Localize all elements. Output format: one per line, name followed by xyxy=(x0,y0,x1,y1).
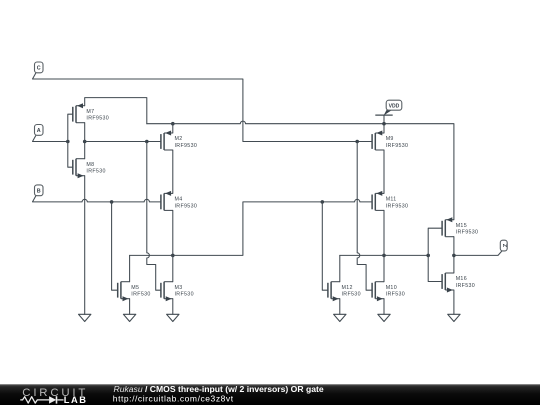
svg-text:M3: M3 xyxy=(175,285,183,291)
transistor M12 IRF530 (NMOS) xyxy=(328,282,361,302)
ground at M16 source xyxy=(448,314,460,321)
svg-text:M16: M16 xyxy=(456,276,467,282)
wire M8 source down to ground (hops B wire) xyxy=(84,176,86,315)
wire M12 source down to ground xyxy=(339,299,341,315)
junction M11 source / M10 drain on right NOR rail xyxy=(382,254,386,258)
node C input label xyxy=(33,62,44,79)
svg-text:M12: M12 xyxy=(342,285,353,291)
transistor M16 IRF530 (NMOS) xyxy=(442,273,475,293)
junction net Abar branch down xyxy=(145,140,149,144)
wire net B: junction down to M5 gate xyxy=(112,202,118,290)
transistor M2 IRF9530 (PMOS) xyxy=(161,131,197,151)
svg-text:IRF530: IRF530 xyxy=(86,169,105,175)
transistor M5 IRF530 (NMOS) xyxy=(118,282,151,302)
footer black bar xyxy=(0,384,540,405)
wire M2 drain up to VDD rail xyxy=(172,124,174,133)
wire M7 source down to inverter output node xyxy=(84,123,86,142)
wire VDD rail (hops C vertical) and down to M15 drain xyxy=(147,121,454,220)
svg-text:M2: M2 xyxy=(175,136,183,142)
ground at M12 source xyxy=(334,314,346,321)
svg-text:A: A xyxy=(37,128,41,134)
svg-text:LAB: LAB xyxy=(64,395,88,405)
junction net B branch to M5 gate xyxy=(110,200,114,204)
svg-text:IRF530: IRF530 xyxy=(456,283,475,289)
svg-text:IRF530: IRF530 xyxy=(175,292,194,298)
wire left NOR output rail up and over to M11 gate (hops at C-branch vertical) xyxy=(130,199,373,255)
node A input label xyxy=(33,125,44,142)
wire net C branch: junction down to M10 gate (hops right rail) xyxy=(357,142,372,291)
svg-text:M10: M10 xyxy=(386,285,397,291)
CircuitLab logo diode xyxy=(49,396,56,403)
wire M8 drain up to inverter output node xyxy=(84,142,86,159)
ground at M10 source xyxy=(378,314,390,321)
wire net A: label to gate junction xyxy=(33,141,68,143)
wire M7 drain up and over to VDD rail xyxy=(85,98,147,124)
svg-text:M4: M4 xyxy=(175,197,183,203)
junction M15/M16 gate node xyxy=(426,254,430,258)
CircuitLab logo resistor zigzag xyxy=(20,397,49,403)
wire M4 source down to left NOR rail xyxy=(172,210,174,255)
wire gate junction up to M15 gate xyxy=(428,228,442,255)
junction inverter-1 output (Abar) xyxy=(83,140,87,144)
wire right NOR output rail to M15/M16 gate junction xyxy=(340,254,428,256)
svg-text:M15: M15 xyxy=(456,223,467,229)
wire M2 source to M4 drain xyxy=(172,150,174,193)
transistor M15 IRF9530 (PMOS) xyxy=(442,217,478,237)
wire M16 drain up to output node xyxy=(453,255,455,273)
svg-text:IRF9530: IRF9530 xyxy=(175,143,198,149)
power VDD symbol and label xyxy=(375,100,402,124)
ground at M8 source xyxy=(79,314,91,321)
wire net C: label to M9 gate xyxy=(33,79,373,142)
svg-text:IRF530: IRF530 xyxy=(386,292,405,298)
svg-text:IRF9530: IRF9530 xyxy=(386,203,409,209)
svg-text:Rukasu / CMOS three-input (w/: Rukasu / CMOS three-input (w/ 2 inversor… xyxy=(114,384,324,394)
transistor M7 IRF9530 (PMOS) xyxy=(73,103,109,123)
junction M2 drain on VDD rail xyxy=(171,122,175,126)
wire branch down to M12 gate xyxy=(322,202,328,290)
wire M16 source down to ground xyxy=(453,290,455,314)
transistor M4 IRF9530 (PMOS) xyxy=(161,191,197,211)
svg-text:IRF9530: IRF9530 xyxy=(386,143,409,149)
wire M15 source down to output node xyxy=(453,237,455,256)
wire M5 source down to ground xyxy=(129,299,131,315)
junction net C branch to M10 xyxy=(355,140,359,144)
transistor M8 IRF530 (NMOS) xyxy=(73,159,106,179)
wire M12 drain up to right NOR rail xyxy=(339,255,341,281)
svg-text:IRF530: IRF530 xyxy=(342,292,361,298)
svg-text:B: B xyxy=(37,189,41,195)
wire M3 drain up to left NOR rail xyxy=(172,255,174,281)
wire A junction up to M7 gate xyxy=(68,114,73,141)
ground at M5 source xyxy=(123,314,135,321)
junction left NOR output branch to M12 gate xyxy=(321,200,325,204)
svg-text:http://circuitlab.com/ce3z8vt: http://circuitlab.com/ce3z8vt xyxy=(113,394,234,404)
transistor M3 IRF530 (NMOS) xyxy=(161,282,194,302)
node B input label xyxy=(33,185,44,202)
wire M10 drain up to right NOR rail xyxy=(383,255,385,281)
transistor M10 IRF530 (NMOS) xyxy=(372,282,405,302)
wire net Z: output node to label xyxy=(454,254,498,256)
wire M9 drain up to VDD rail xyxy=(383,124,385,133)
svg-text:M8: M8 xyxy=(86,162,94,168)
wire net B: label to M4 gate (hops M8-source and Abar verticals) xyxy=(33,199,161,202)
wire M9 source to M11 drain xyxy=(383,150,385,193)
svg-text:IRF9530: IRF9530 xyxy=(86,116,109,122)
junction output node Z xyxy=(452,254,456,258)
wire M3 source down to ground xyxy=(172,299,174,315)
wire M10 source down to ground xyxy=(383,299,385,315)
transistor M11 IRF9530 (PMOS) xyxy=(372,191,408,211)
transistor M9 IRF9530 (PMOS) xyxy=(372,131,408,151)
svg-text:IRF9530: IRF9530 xyxy=(456,230,479,236)
svg-text:M9: M9 xyxy=(386,136,394,142)
ground at M3 source xyxy=(167,314,179,321)
wire net Abar: down to M3 gate (hops left rail) xyxy=(147,142,161,291)
wire M11 source down to right NOR rail xyxy=(383,210,385,255)
svg-text:M11: M11 xyxy=(386,197,397,203)
svg-text:C: C xyxy=(37,66,41,72)
svg-text:M5: M5 xyxy=(131,285,139,291)
junction VDD / M9 drain on rail xyxy=(382,122,386,126)
svg-text:M7: M7 xyxy=(86,109,94,115)
junction net A at M7/M8 gates xyxy=(66,140,70,144)
wire M5 drain up to left NOR rail xyxy=(129,255,131,281)
wire net Abar: junction to M2 gate xyxy=(85,141,161,143)
node Z output label xyxy=(498,240,507,255)
svg-text:IRF9530: IRF9530 xyxy=(175,203,198,209)
svg-text:VDD: VDD xyxy=(389,104,400,110)
wire gate junction down to M16 gate xyxy=(428,255,442,281)
junction M4 source / M3 drain on left NOR rail xyxy=(171,254,175,258)
svg-text:IRF530: IRF530 xyxy=(131,292,150,298)
wire A junction down to M8 gate xyxy=(68,142,73,168)
